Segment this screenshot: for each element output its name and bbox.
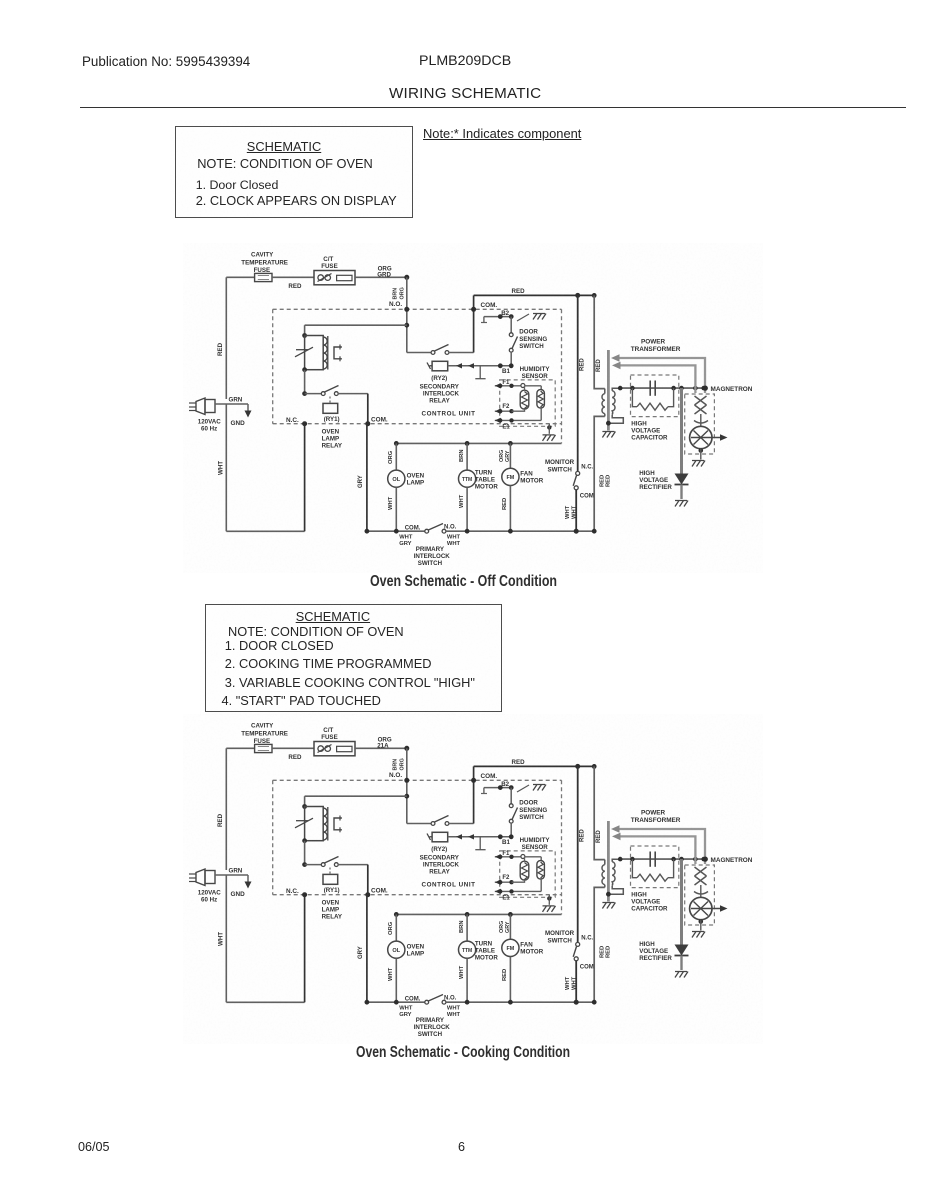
svg-text:Oven Schematic - Cooking Condi: Oven Schematic - Cooking Condition	[356, 1044, 570, 1061]
svg-text:Oven Schematic - Off Conditio: Oven Schematic - Off Condition	[370, 573, 557, 590]
